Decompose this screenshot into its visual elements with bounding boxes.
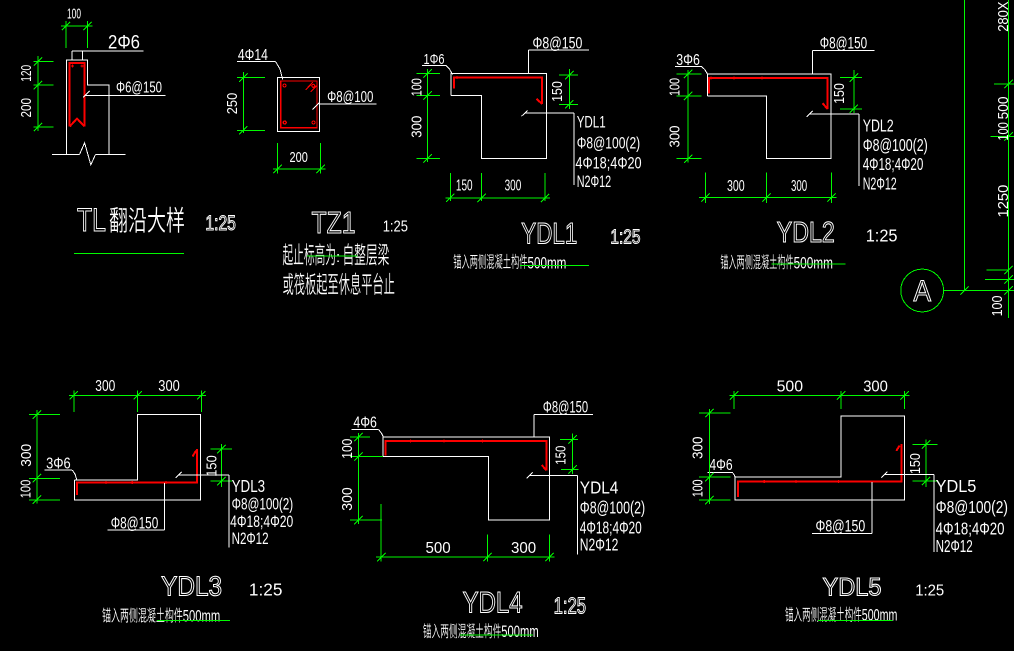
YDL1 detail: leader slash <box>522 111 528 117</box>
svg-text:100: 100 <box>408 78 425 96</box>
svg-text:300: 300 <box>18 444 35 467</box>
YDL2 detail: note green underline <box>772 263 846 265</box>
YDL3 detail: note green underline <box>157 620 230 622</box>
YDL4 detail: rebar section dots <box>409 440 412 443</box>
svg-text:300: 300 <box>158 378 180 395</box>
axis bubble A circle <box>901 269 944 312</box>
svg-text:300: 300 <box>666 126 683 148</box>
TZ1 detail: left dimension tick lines <box>237 77 265 79</box>
YDL4 detail: leader curve <box>379 430 384 437</box>
YDL2 detail: bottom dimension ticks <box>701 193 709 201</box>
TZ1 detail: stirrup <box>281 81 317 128</box>
svg-text:300: 300 <box>863 379 888 396</box>
svg-text:N2Φ12: N2Φ12 <box>580 535 619 555</box>
svg-text:300: 300 <box>511 540 537 557</box>
svg-text:500mm: 500mm <box>183 607 221 625</box>
YDL5 detail: rebar bottom bar <box>738 444 901 497</box>
YDL2 detail: leader curve <box>701 66 707 73</box>
TZ1 detail: corner rebar circles <box>283 84 286 87</box>
svg-text:150: 150 <box>553 446 570 465</box>
svg-text:100: 100 <box>995 122 1012 141</box>
svg-text:300: 300 <box>339 487 356 511</box>
YDL2 detail: right dimension tick lines <box>840 77 862 79</box>
TL detail: left dimension line <box>37 56 39 131</box>
YDL1 detail: rebar section dot <box>456 76 459 79</box>
YDL2 detail: rebar hook <box>823 103 828 109</box>
YDL5 detail: label 4-phi-6 underline leader <box>708 472 733 474</box>
axis column: tick line at y136 <box>991 135 1014 137</box>
svg-text:4Φ6: 4Φ6 <box>709 457 732 474</box>
svg-text:1:25: 1:25 <box>205 212 236 235</box>
YDL2 detail: left dimension ticks <box>684 70 692 78</box>
TZ1 detail: green line through note <box>307 255 358 257</box>
TL detail: top dimension ticks <box>62 22 70 30</box>
svg-text:Φ8@150: Φ8@150 <box>816 517 866 536</box>
TL detail: label phi-6-at-150 underline leader <box>85 95 165 97</box>
svg-text:4Φ6: 4Φ6 <box>353 415 377 432</box>
YDL2 detail: rebar section dots <box>710 77 713 80</box>
YDL1 detail: leader vertical to section <box>527 50 529 74</box>
TL detail: break line zigzag <box>80 143 96 165</box>
YDL3 detail: left dimension ticks <box>33 411 41 419</box>
svg-text:1:25: 1:25 <box>249 580 283 600</box>
YDL1 detail: left dimension tick lines <box>417 72 440 74</box>
YDL4 detail: note anchor text <box>423 623 501 638</box>
YDL1 detail: label phi-8-at-150 underline leader <box>528 49 589 51</box>
svg-text:500mm: 500mm <box>501 623 538 641</box>
svg-text:300: 300 <box>689 436 706 459</box>
svg-text:YDL4: YDL4 <box>463 587 523 620</box>
TZ1 detail: label phi-8-at-100 underline leader <box>320 103 377 105</box>
TL detail: rebar section dots <box>71 65 74 68</box>
YDL4 detail: flange bottom extension to dim line <box>360 456 383 458</box>
YDL1 detail: leader to text block <box>524 112 574 114</box>
svg-text:Φ8@100(2): Φ8@100(2) <box>863 135 928 155</box>
svg-text:2Φ6: 2Φ6 <box>108 33 140 54</box>
YDL3 detail: leader curve <box>72 470 77 480</box>
svg-text:YDL3: YDL3 <box>232 476 266 496</box>
axis column: dimension vertical line <box>1008 0 1010 318</box>
svg-text:TZ1: TZ1 <box>312 205 356 240</box>
YDL3 detail: label 3-phi-6 underline leader <box>45 469 73 471</box>
TL detail: wall section outline <box>67 60 110 155</box>
YDL1 detail: leader curve <box>446 65 453 74</box>
svg-text:A: A <box>914 275 932 308</box>
YDL2 detail: right dimension ticks <box>850 73 858 81</box>
svg-text:1:25: 1:25 <box>554 592 587 618</box>
svg-text:1:25: 1:25 <box>915 583 944 600</box>
TZ1 detail: column outline <box>278 78 320 132</box>
TZ1 detail: leader arrow slash <box>313 103 320 110</box>
YDL5 detail: rebar section dots <box>763 480 766 483</box>
svg-text:120: 120 <box>18 65 35 82</box>
YDL4 detail: leader to text block <box>530 474 578 476</box>
YDL3 detail: rebar section dots <box>105 481 108 484</box>
YDL1 detail: note anchor text <box>454 254 528 269</box>
TL detail: rebar ribbon <box>70 63 85 127</box>
YDL4 detail: right dimension ticks <box>568 435 576 443</box>
svg-text:4Φ18;4Φ20: 4Φ18;4Φ20 <box>863 154 924 174</box>
YDL5 detail: top dimension ticks <box>730 391 738 399</box>
svg-text:N2Φ12: N2Φ12 <box>863 174 897 194</box>
TL detail: top dimension line <box>61 25 93 27</box>
YDL2 detail: label 3-phi-6 underline leader <box>675 65 702 67</box>
svg-text:4Φ18;4Φ20: 4Φ18;4Φ20 <box>230 512 293 531</box>
YDL5 detail: leader vertical to rebar <box>871 482 873 534</box>
YDL4 detail: section outline <box>383 437 550 520</box>
svg-text:Φ8@100(2): Φ8@100(2) <box>580 498 645 518</box>
YDL4 detail: rebar hook <box>542 465 547 470</box>
TZ1 detail: bottom dimension ticks <box>274 165 282 173</box>
axis column: tick at y84 <box>1004 80 1012 88</box>
axis column: tick at line crossing <box>960 286 968 294</box>
svg-text:500: 500 <box>995 96 1012 119</box>
YDL4 detail: left dimension ticks <box>354 433 362 441</box>
YDL5 detail: leader curve <box>732 473 735 478</box>
svg-text:Φ8@100(2): Φ8@100(2) <box>232 495 294 514</box>
YDL3 detail: right dimension ticks <box>217 445 225 453</box>
svg-text:4Φ18;4Φ20: 4Φ18;4Φ20 <box>575 154 641 173</box>
TZ1 detail: left dimension ticks <box>239 73 247 81</box>
YDL1 detail: bottom dimension extension lines <box>449 173 451 201</box>
svg-text:YDL1: YDL1 <box>521 218 577 251</box>
YDL2 detail: leader slash <box>807 111 813 117</box>
svg-text:1:25: 1:25 <box>610 226 640 249</box>
svg-text:200: 200 <box>18 98 35 118</box>
YDL3 detail: right dimension line 150 <box>220 444 222 487</box>
svg-text:100: 100 <box>689 479 706 497</box>
svg-text:Φ8@150: Φ8@150 <box>111 513 159 532</box>
YDL3 detail: top dimension line <box>69 394 206 396</box>
YDL4 detail: leader vertical to section <box>533 415 535 438</box>
YDL5 detail: top dimension extension lines <box>733 391 735 409</box>
YDL3 detail: note anchor text <box>102 607 182 622</box>
axis column: tick line at y84 <box>994 83 1014 85</box>
svg-text:100: 100 <box>339 439 356 459</box>
YDL3 detail: leader to text block <box>178 474 229 476</box>
YDL1 detail: section outline <box>451 73 546 158</box>
YDL3 detail: leader slash <box>176 472 182 478</box>
TL detail: leader arrow slash <box>83 91 90 98</box>
YDL5 detail: left dimension ticks <box>705 409 713 417</box>
YDL2 detail: left dimension line <box>687 70 689 163</box>
svg-text:100: 100 <box>67 6 81 23</box>
svg-text:250: 250 <box>224 93 241 115</box>
YDL2 detail: section outline <box>707 74 831 159</box>
YDL4 detail: bottom dimension extension lines <box>487 534 489 561</box>
svg-text:N2Φ12: N2Φ12 <box>232 529 269 548</box>
svg-text:150: 150 <box>456 177 473 194</box>
TL detail: wall bottom edge with break <box>52 154 80 156</box>
TZ1 detail: stirrup hook diagonals <box>306 82 313 90</box>
YDL1 detail: right dimension tick lines <box>559 74 578 76</box>
svg-text:YDL1: YDL1 <box>577 113 606 132</box>
svg-text:100: 100 <box>17 480 34 499</box>
svg-text:500: 500 <box>777 379 804 396</box>
svg-text:N2Φ12: N2Φ12 <box>936 536 973 556</box>
svg-text:100: 100 <box>989 296 1006 317</box>
YDL2 detail: leader to text block <box>809 113 859 115</box>
svg-text:YDL2: YDL2 <box>777 217 835 249</box>
YDL3 detail: left dimension tick lines <box>29 414 60 416</box>
TL detail: title green underline <box>74 252 184 254</box>
YDL1 detail: rebar hook <box>537 99 543 104</box>
YDL1 detail: left dimension line <box>427 69 429 162</box>
YDL4 detail: leader slash <box>527 472 533 478</box>
TZ1 detail: leader curve to column corner <box>276 62 283 80</box>
YDL2 detail: left dimension tick lines <box>676 73 701 75</box>
YDL3 detail: leader vertical to rebar <box>163 483 165 530</box>
YDL5 detail: right dimension tick lines <box>913 443 938 445</box>
axis column: long vertical line <box>964 0 966 291</box>
svg-text:100: 100 <box>666 78 683 96</box>
svg-text:Φ8@100(2): Φ8@100(2) <box>936 497 1008 517</box>
YDL5 detail: rebar hook slash <box>896 446 899 451</box>
svg-text:500mm: 500mm <box>862 607 898 625</box>
svg-text:Φ8@150: Φ8@150 <box>543 398 588 417</box>
YDL3 detail: right dimension tick lines <box>211 448 233 450</box>
axis column: tick at y136 <box>1004 132 1012 140</box>
TL detail: wall top notch <box>71 51 73 60</box>
svg-text:150: 150 <box>203 455 220 477</box>
svg-text:1:25: 1:25 <box>383 219 408 236</box>
YDL3 detail: top dimension ticks <box>70 391 78 399</box>
YDL5 detail: left dimension line <box>708 409 710 504</box>
YDL4 detail: left dimension line <box>357 433 359 524</box>
YDL4 detail: bottom dimension ticks <box>377 553 385 561</box>
svg-text:N2Φ12: N2Φ12 <box>577 172 612 191</box>
TL detail: top dimension extension lines <box>65 21 67 48</box>
YDL3 detail: rebar bottom bar <box>77 449 197 495</box>
svg-text:Φ8@100(2): Φ8@100(2) <box>577 133 641 152</box>
YDL4 detail: bottom-left extension line <box>380 504 382 561</box>
svg-text:150: 150 <box>549 81 566 102</box>
YDL4 detail: label phi-8-at-150 underline leader <box>534 414 593 416</box>
YDL4 detail: right dimension line 150 <box>572 434 574 475</box>
YDL2 detail: leader vertical to section <box>811 51 813 74</box>
YDL2 detail: note anchor text <box>721 254 794 269</box>
TZ1 detail: note line 1 qi zhi biao gao wei <box>283 243 335 265</box>
TL detail: left dimension ticks <box>34 57 42 65</box>
axis column: tick line at y279.5 <box>985 279 1014 281</box>
YDL2 detail: bottom dimension extension lines <box>705 173 707 203</box>
TL detail: label 2-phi-6 underline leader <box>72 50 144 52</box>
YDL5 detail: leader to text block <box>884 474 933 476</box>
TZ1 detail: bottom dimension line <box>273 168 326 170</box>
svg-text:300: 300 <box>727 178 745 195</box>
YDL4 detail: left dimension tick lines <box>350 436 370 438</box>
svg-text:500: 500 <box>426 540 452 557</box>
TL detail: rebar ribbon swallowtail <box>70 119 85 127</box>
svg-text:Φ8@150: Φ8@150 <box>820 34 867 53</box>
svg-text:150: 150 <box>831 83 848 104</box>
YDL5 detail: left dimension tick lines <box>699 412 731 414</box>
YDL5 detail: right dimension ticks <box>922 440 930 448</box>
YDL2 detail: right dimension line 150 <box>853 70 855 113</box>
YDL4 detail: label 4-phi-6 underline leader <box>352 429 379 431</box>
YDL5 detail: section outline <box>735 416 904 500</box>
svg-text:Φ6@150: Φ6@150 <box>116 80 162 97</box>
YDL2 detail: label phi-8-at-150 underline leader <box>812 50 874 52</box>
svg-text:Φ8@100: Φ8@100 <box>327 89 373 106</box>
YDL3 detail: top dimension extension lines <box>73 391 75 413</box>
svg-text:YDL4: YDL4 <box>580 477 619 497</box>
svg-text::: : <box>336 249 340 266</box>
YDL1 detail: note green underline <box>520 265 589 267</box>
svg-text:YDL5: YDL5 <box>823 573 882 601</box>
YDL5 detail: top dimension line <box>730 394 910 396</box>
YDL3 detail: rebar hook slash <box>193 451 197 457</box>
YDL3 detail: label phi-8-at-150 underline leader <box>108 529 165 531</box>
YDL4 detail: bottom dimension line <box>376 556 555 558</box>
svg-text:TL: TL <box>77 202 106 238</box>
axis column: tick line at y270 <box>986 269 1009 271</box>
YDL3 detail: left dimension line <box>36 410 38 504</box>
TZ1 detail: note line 2 huo fa ban qi zhi xiu xi ping tai zhi <box>283 273 394 296</box>
YDL2 detail: bottom dimension line <box>699 197 837 199</box>
TZ1 detail: left dimension line <box>242 72 244 133</box>
YDL5 detail: right dimension line 150 <box>925 440 927 488</box>
svg-text:1:25: 1:25 <box>866 226 898 246</box>
svg-text:YDL2: YDL2 <box>863 116 894 136</box>
axis column: horizontal line to circle A <box>944 290 1014 292</box>
axis column: tick at y270 <box>1004 266 1012 274</box>
YDL2 detail: rebar top bar <box>709 78 828 109</box>
YDL5 detail: note green underline <box>818 619 893 621</box>
svg-text:300: 300 <box>408 116 425 138</box>
svg-text:300: 300 <box>505 177 522 194</box>
YDL1 detail: label 1-phi-6 underline leader <box>422 64 446 66</box>
svg-text:500mm: 500mm <box>528 255 567 273</box>
YDL1 detail: bottom dimension line <box>446 197 551 199</box>
axis column: tick at y279.5 <box>1004 275 1012 283</box>
svg-text:1250: 1250 <box>995 185 1012 218</box>
YDL3 detail: section outline <box>75 415 201 500</box>
svg-text:300: 300 <box>95 378 115 395</box>
YDL1 detail: right dimension line 150 <box>568 69 570 109</box>
YDL5 detail: note anchor text <box>785 607 861 622</box>
YDL1 detail: left dimension ticks <box>423 69 431 77</box>
TZ1 detail: bottom dimension extension lines <box>277 143 279 173</box>
svg-text:150: 150 <box>907 453 924 474</box>
TZ1 detail: label 4-phi-14 underline leader <box>237 61 276 63</box>
YDL5 detail: label phi-8-at-150 underline leader <box>812 533 872 535</box>
YDL4 detail: note green underline <box>460 634 533 636</box>
TL detail: title Chinese fan-yan-da-yang <box>110 207 184 233</box>
svg-text:300: 300 <box>791 178 807 195</box>
YDL4 detail: rebar top bar <box>385 441 546 470</box>
YDL4 detail: right dimension tick lines <box>560 438 578 440</box>
svg-text:YDL5: YDL5 <box>936 476 977 496</box>
svg-text:YDL3: YDL3 <box>161 571 222 602</box>
TL detail: left dimension tick lines <box>33 61 53 63</box>
YDL1 detail: right dimension ticks <box>565 71 573 79</box>
YDL1 detail: bottom dimension ticks <box>446 194 454 202</box>
svg-text:200: 200 <box>290 149 308 166</box>
YDL5 detail: leader slash <box>881 472 887 478</box>
svg-text:280X: 280X <box>995 1 1012 31</box>
YDL1 detail: rebar top bar <box>454 78 542 105</box>
